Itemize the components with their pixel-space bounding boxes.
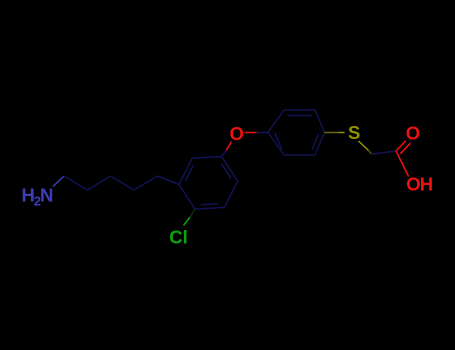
- wire: bond N-C1 (amine): [53, 176, 64, 187]
- wire: bond C2-C3: [88, 176, 111, 190]
- wire: bond C5-ring1: [158, 176, 180, 185]
- wire: bond C3-C4: [111, 176, 135, 190]
- wire: bond S-CH2 (bright sulfur part): [359, 141, 369, 151]
- wire: bond C4-C5: [134, 176, 158, 190]
- wire: bond ring1-O1 (navy half): [222, 150, 227, 156]
- wire: bond ring1-Cl (dark half): [190, 209, 195, 217]
- node: middle benzene ring (ring1): [179, 157, 238, 210]
- wire: bond C1-C2: [64, 176, 88, 190]
- wire: double bond C=O2 line 2: [400, 143, 410, 154]
- wire: bond C-O3 hydroxyl: [396, 151, 409, 177]
- wire: double bond C=O2 line 1: [396, 141, 406, 151]
- svg-text:O: O: [230, 123, 244, 144]
- wire: bond CH2-Ccarboxyl: [372, 151, 397, 154]
- wire: bond O1-ring2 (navy half): [257, 132, 269, 134]
- wire: bond ring2-S (bright sulfur half): [339, 132, 345, 134]
- wire: bond ring1-Cl (bright half): [184, 217, 191, 226]
- node: right benzene ring (ring2): [268, 110, 325, 155]
- svg-text:O: O: [406, 123, 420, 144]
- wire: bond O1-ring2 (red half): [245, 132, 257, 134]
- svg-text:N: N: [40, 185, 53, 206]
- wire: bond S-CH2 (dark carbon part): [369, 151, 372, 155]
- wire: bond ring2-S (dark carbon half): [325, 132, 339, 134]
- wire: bond ring1-O1 (red half): [226, 142, 231, 151]
- svg-text:Cl: Cl: [169, 226, 188, 247]
- svg-text:S: S: [348, 122, 360, 143]
- svg-text:OH: OH: [406, 174, 433, 195]
